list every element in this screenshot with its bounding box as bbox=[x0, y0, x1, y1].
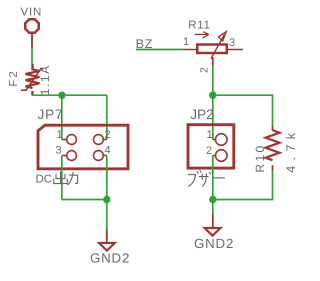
ground symbol GND2 right bbox=[205, 214, 221, 236]
JP2 box bbox=[188, 125, 234, 168]
kanji 力 bbox=[68, 172, 78, 185]
svg-text:3: 3 bbox=[229, 37, 235, 49]
svg-text:DC: DC bbox=[36, 174, 53, 186]
JP2 pin 1 bbox=[213, 134, 227, 146]
JP7 pin 1 bbox=[62, 135, 77, 145]
svg-text:1.1A: 1.1A bbox=[38, 64, 52, 95]
wire junction to JP7 pin1 bbox=[61, 95, 63, 139]
wire R11 pin2 down bbox=[212, 66, 214, 96]
svg-text:GND2: GND2 bbox=[194, 236, 234, 251]
fuse F2 bbox=[21, 64, 43, 96]
R11 left lead bbox=[183, 49, 197, 51]
svg-text:GND2: GND2 bbox=[90, 251, 130, 266]
JP7 pin 3 bbox=[62, 151, 77, 161]
wire junction to R10 (horizontal+down) bbox=[213, 95, 273, 127]
wire JP7 pin4 down bbox=[106, 156, 108, 200]
wire junction to GND2 left bbox=[106, 200, 108, 230]
katakana ブ bbox=[188, 170, 201, 186]
wire VIN to F2 bbox=[31, 48, 33, 65]
svg-text:2: 2 bbox=[206, 145, 212, 157]
svg-text:R11: R11 bbox=[188, 20, 210, 32]
svg-text:VIN: VIN bbox=[21, 6, 43, 18]
svg-text:1: 1 bbox=[183, 36, 189, 48]
ground symbol GND2 left bbox=[99, 229, 115, 251]
svg-text:JP7: JP7 bbox=[38, 107, 64, 122]
junction below R11 bbox=[209, 92, 216, 99]
wire JP7 pin3 down bbox=[61, 156, 63, 200]
svg-text:R10: R10 bbox=[253, 143, 267, 172]
JP7 pin numbers bbox=[56, 129, 111, 157]
JP2 pin 2 bbox=[213, 150, 227, 162]
R11 right lead (pin 3 open) bbox=[228, 49, 243, 51]
junction at F2/JP7 bbox=[58, 92, 65, 99]
katakana ー bbox=[214, 177, 225, 179]
wire junction to GND2 right bbox=[212, 200, 214, 215]
wire BZ to R11 bbox=[136, 49, 183, 51]
kanji 出 bbox=[54, 172, 68, 184]
svg-text:1: 1 bbox=[207, 129, 213, 141]
svg-text:F2: F2 bbox=[8, 69, 20, 86]
wire R10 bottom to junction bbox=[213, 170, 273, 200]
pin stub from VIN bbox=[31, 34, 33, 49]
svg-text:3: 3 bbox=[56, 145, 62, 157]
wire JP2 pin2 down bbox=[212, 156, 214, 200]
wire junction to JP2 pin1 bbox=[212, 95, 214, 139]
JP7 box bbox=[38, 125, 128, 169]
wire bottom horizontal to junction bbox=[62, 199, 107, 201]
svg-text:1: 1 bbox=[57, 129, 63, 141]
wire corner to JP7 pin2 bbox=[106, 95, 108, 139]
R11 pin2 lead bbox=[212, 57, 214, 65]
svg-text:2: 2 bbox=[199, 67, 211, 73]
svg-text:4: 4 bbox=[105, 145, 111, 157]
supply pin VIN circle bbox=[25, 19, 38, 33]
R11 body bbox=[197, 45, 227, 54]
R11 adjust arrow bbox=[195, 32, 209, 38]
svg-text:2: 2 bbox=[105, 129, 111, 141]
R11 wiper diagonal with arrowhead bbox=[211, 32, 226, 59]
JP7 pin 2 bbox=[94, 135, 107, 145]
junction below JP7 bbox=[103, 196, 110, 203]
JP7 pin 4 bbox=[94, 151, 107, 161]
wire F2 to JP7 (horizontal) bbox=[32, 94, 107, 96]
svg-text:JP2: JP2 bbox=[190, 107, 213, 122]
junction below JP2 bbox=[209, 196, 216, 203]
svg-text:4.7k: 4.7k bbox=[284, 128, 298, 173]
katakana ザ bbox=[199, 171, 214, 187]
resistor R10 bbox=[266, 127, 280, 171]
